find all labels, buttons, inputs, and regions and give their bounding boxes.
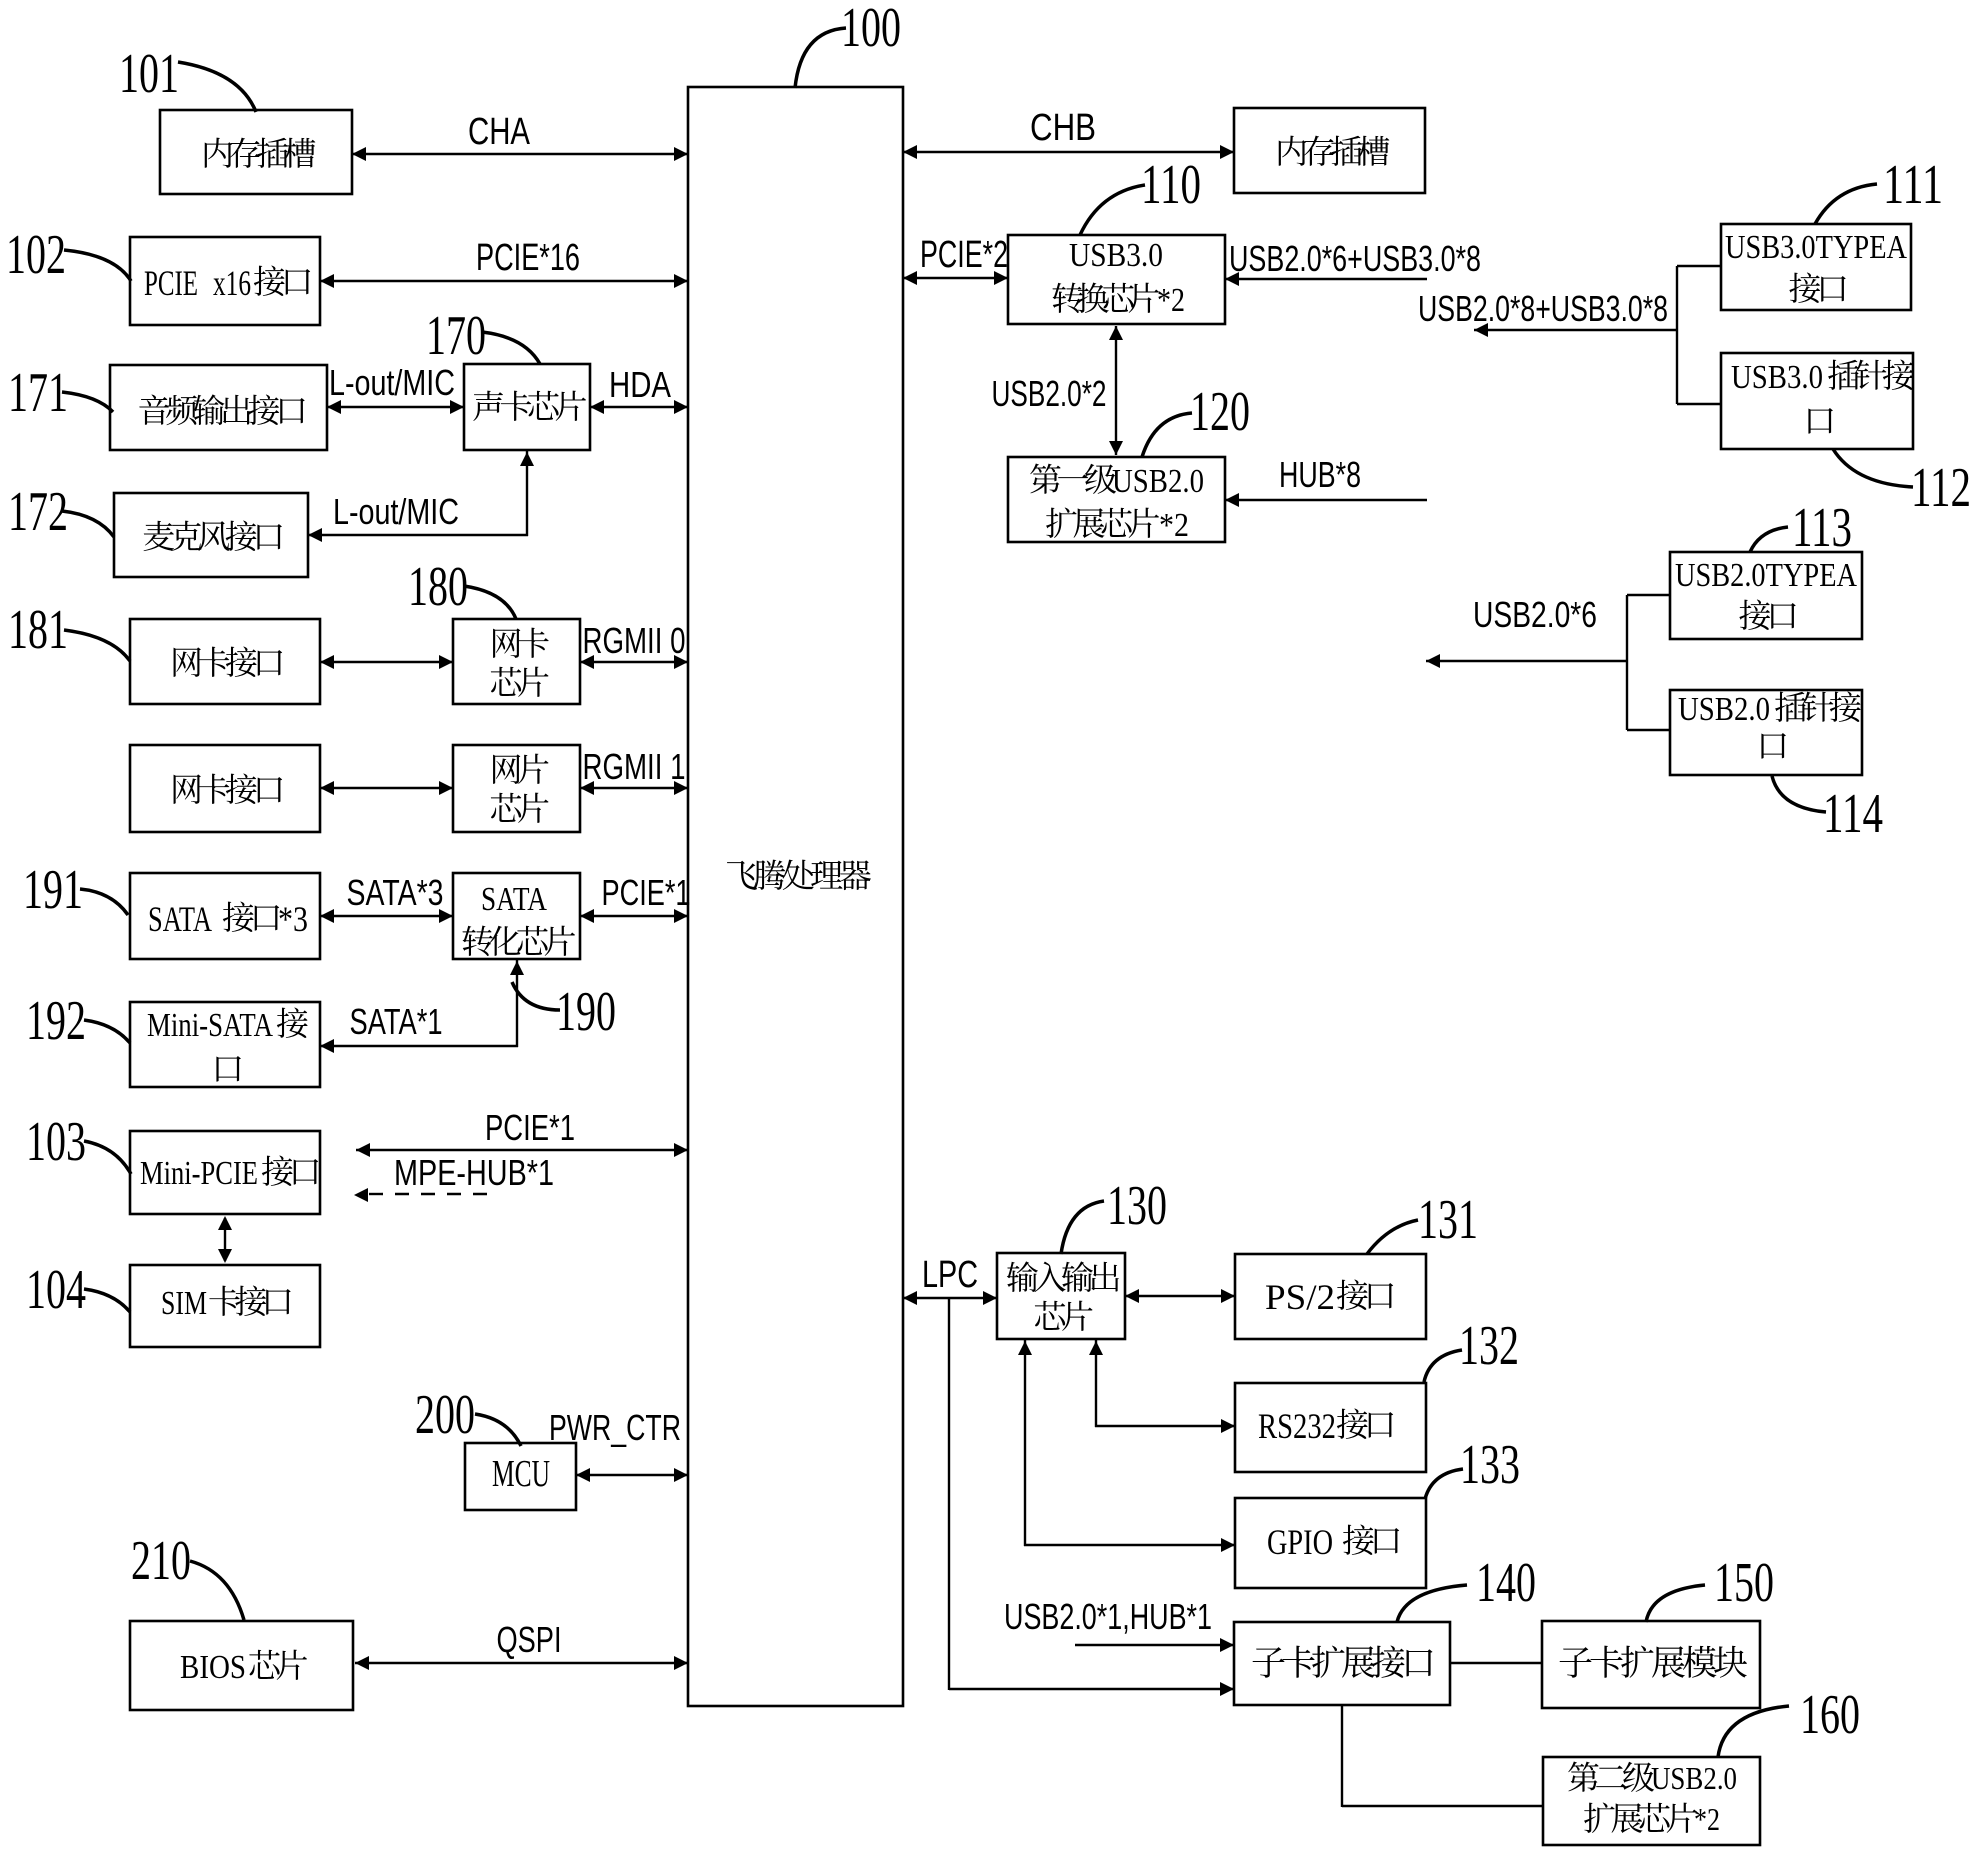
svg-text:QSPI: QSPI — [497, 1619, 562, 1660]
svg-text:150: 150 — [1714, 1552, 1774, 1614]
svg-text:USB2.0: USB2.0 — [1678, 691, 1770, 728]
wire PCIE*1 SATA chip to processor — [580, 909, 688, 923]
ref 210 with leader — [131, 1530, 244, 1620]
box 150 子卡扩展模块 — [1542, 1621, 1760, 1708]
svg-text:USB2.0*6+USB3.0*8: USB2.0*6+USB3.0*8 — [1229, 238, 1481, 279]
label USB2.0*8+USB3.0*8 — [1418, 288, 1668, 329]
svg-text:160: 160 — [1800, 1684, 1860, 1746]
label HUB*8 — [1279, 454, 1361, 495]
svg-text:HDA: HDA — [609, 364, 671, 405]
svg-text:RGMII 0: RGMII 0 — [583, 620, 686, 661]
svg-text:PS/2: PS/2 — [1265, 1277, 1335, 1317]
svg-text:130: 130 — [1107, 1175, 1167, 1237]
label HDA — [609, 364, 671, 405]
svg-text:210: 210 — [131, 1530, 191, 1592]
svg-text:Mini-PCIE: Mini-PCIE — [140, 1155, 258, 1192]
box 181 网卡接口 (upper NIC port) — [130, 619, 320, 704]
label SATA*1 — [350, 1001, 443, 1042]
label MPE-HUB*1 — [394, 1152, 554, 1193]
svg-text:SIM: SIM — [161, 1285, 207, 1322]
wire daughter-card interface to second-level hub — [1342, 1705, 1543, 1807]
wire USB2.0*1,HUB*1 into daughter-card interface — [1075, 1638, 1234, 1652]
svg-text:CHA: CHA — [468, 111, 531, 153]
wire HDA sound chip to processor — [590, 400, 688, 414]
wire CHA memory-slot to processor — [352, 147, 688, 161]
box 170 声卡芯片 — [464, 364, 590, 450]
wire NIC port to NIC chip lower — [320, 781, 453, 795]
wire L-out/MIC to microphone L-shape — [308, 450, 534, 542]
ref 160 with leader — [1718, 1684, 1860, 1757]
svg-text:USB3.0: USB3.0 — [1069, 237, 1163, 274]
svg-text:PCIE*2: PCIE*2 — [920, 234, 1008, 276]
box second 网卡接口 (lower NIC port) — [130, 745, 320, 832]
bracket joining USB3.0 boxes — [1677, 266, 1721, 404]
ref 110 with leader — [1080, 154, 1201, 235]
box 网片芯片 (lower NIC chip) — [453, 745, 580, 832]
svg-text:101: 101 — [119, 43, 179, 105]
box 160 第二级USB2.0 扩展芯片*2 — [1543, 1757, 1760, 1845]
ref 171 with leader — [8, 362, 113, 424]
svg-text:131: 131 — [1418, 1189, 1478, 1251]
svg-text:SATA*1: SATA*1 — [350, 1001, 443, 1042]
box 120 第一级USB2.0 扩展芯片*2 — [1008, 457, 1225, 544]
svg-text:113: 113 — [1792, 497, 1852, 559]
svg-text:102: 102 — [6, 224, 66, 286]
ref 131 with leader — [1367, 1189, 1478, 1254]
bracket joining USB2.0 boxes — [1627, 595, 1670, 730]
box 130 输入输出芯片 — [997, 1253, 1125, 1339]
wire HUB*8 into first-level hub — [1225, 493, 1427, 507]
svg-text:180: 180 — [408, 556, 468, 618]
box 110 USB3.0 转换芯片*2 — [1008, 235, 1225, 324]
ref 172 with leader — [8, 481, 114, 543]
box 112 USB3.0插针接口 — [1721, 353, 1914, 449]
svg-text:103: 103 — [26, 1111, 86, 1173]
wire IO chip to GPIO L-shape — [1018, 1339, 1235, 1552]
svg-text:Mini-SATA: Mini-SATA — [147, 1007, 273, 1044]
box 101 内存插槽 (memory slot left) — [160, 110, 352, 194]
wire NIC port to NIC chip upper — [320, 655, 453, 669]
svg-text:133: 133 — [1460, 1434, 1520, 1496]
svg-text:BIOS: BIOS — [180, 1649, 246, 1686]
svg-text:132: 132 — [1459, 1315, 1519, 1377]
svg-text:110: 110 — [1141, 154, 1201, 216]
ref 170 with leader — [426, 305, 540, 367]
svg-text:112: 112 — [1911, 457, 1969, 519]
svg-text:120: 120 — [1190, 381, 1250, 443]
svg-text:L-out/MIC: L-out/MIC — [333, 491, 459, 532]
label L-out/MIC lower — [333, 491, 459, 532]
wire USB2.0*6+USB3.0*8 into USB3.0 chip — [1225, 272, 1427, 286]
wire PCIE*16 to processor — [320, 274, 688, 288]
label LPC — [922, 1254, 978, 1296]
svg-text:USB2.0*1,HUB*1: USB2.0*1,HUB*1 — [1004, 1596, 1212, 1637]
svg-text:USB3.0: USB3.0 — [1731, 359, 1823, 396]
svg-text:MCU: MCU — [492, 1453, 550, 1495]
ref 150 with leader — [1646, 1552, 1774, 1622]
svg-text:PCIE: PCIE — [144, 263, 198, 303]
wire Mini-PCIE to SIM vertical — [218, 1216, 232, 1263]
wire RGMII1 NIC chip to processor — [580, 781, 688, 795]
svg-text:140: 140 — [1476, 1552, 1536, 1614]
wire IO chip to PS/2 — [1125, 1289, 1235, 1303]
box 200 MCU — [465, 1443, 576, 1510]
svg-text:SATA: SATA — [481, 881, 547, 918]
ref 102 with leader — [6, 224, 131, 286]
box 180 网卡芯片 (upper NIC chip) — [453, 619, 580, 704]
wire QSPI BIOS to processor — [355, 1656, 688, 1670]
svg-text:111: 111 — [1883, 154, 1943, 216]
wire IO chip to RS232 L-shape — [1089, 1339, 1235, 1433]
svg-text:USB2.0*2: USB2.0*2 — [992, 373, 1107, 414]
ref 100 with leader — [795, 0, 901, 88]
label PCIE*1 at SATA chip — [602, 872, 691, 913]
wire SATA*1 SATA chip to Mini-SATA L-shape — [320, 959, 524, 1053]
box 111 USB3.0TYPEA 接口 — [1721, 224, 1911, 310]
ref 200 with leader — [415, 1384, 521, 1446]
wire MPE-HUB*1 dashed arrow — [354, 1188, 499, 1202]
wire L-out/MIC audio-out to sound chip — [327, 400, 464, 414]
ref 112 with leader — [1833, 449, 1969, 519]
label RGMII 0 — [583, 620, 686, 661]
ref 114 with leader — [1772, 776, 1883, 845]
label USB2.0*6 — [1473, 594, 1597, 635]
svg-text:*2: *2 — [1157, 282, 1185, 319]
svg-text:RS232: RS232 — [1258, 1406, 1336, 1446]
svg-text:100: 100 — [841, 0, 901, 59]
svg-text:200: 200 — [415, 1384, 475, 1446]
svg-text:191: 191 — [23, 859, 83, 921]
box 102 PCIE x16接口 — [130, 237, 320, 325]
svg-text:SATA*3: SATA*3 — [347, 872, 444, 913]
box 113 USB2.0TYPEA 接口 — [1670, 552, 1862, 639]
ref 113 with leader — [1750, 497, 1852, 559]
ref 130 with leader — [1061, 1175, 1167, 1254]
label USB2.0*6+USB3.0*8 — [1229, 238, 1481, 279]
ref 190 with leader — [512, 981, 616, 1043]
box 190 SATA 转化芯片 — [453, 873, 580, 959]
svg-text:172: 172 — [8, 481, 68, 543]
wire USB2.0*2 vertical USB3.0 chip to first-level hub — [1109, 326, 1123, 455]
wire LPC processor to IO chip — [903, 1291, 997, 1305]
ref 111 with leader — [1815, 154, 1943, 224]
box 133 GPIO 接口 — [1235, 1498, 1426, 1588]
svg-text:PCIE*16: PCIE*16 — [476, 237, 580, 279]
box 191 SATA 接口*3 — [130, 873, 320, 959]
wire daughter-card interface to module — [1450, 1662, 1542, 1664]
svg-text:*2: *2 — [1159, 507, 1189, 544]
svg-text:190: 190 — [556, 981, 616, 1043]
svg-text:USB3.0TYPEA: USB3.0TYPEA — [1725, 229, 1907, 266]
svg-text:GPIO: GPIO — [1267, 1522, 1333, 1562]
box 132 RS232接口 — [1235, 1383, 1426, 1472]
svg-text:CHB: CHB — [1030, 107, 1096, 149]
svg-text:114: 114 — [1823, 783, 1883, 845]
label CHB — [1030, 107, 1096, 149]
svg-text:181: 181 — [8, 599, 68, 661]
box 171 音频输出接口 — [110, 365, 327, 450]
wire RGMII0 NIC chip to processor — [580, 655, 688, 669]
label RGMII 1 — [583, 746, 686, 787]
ref 181 with leader — [8, 599, 130, 661]
wire PCIE*1 Mini-PCIE to processor — [356, 1143, 688, 1157]
svg-text:L-out/MIC: L-out/MIC — [329, 362, 455, 403]
label USB2.0*1,HUB*1 — [1004, 1596, 1212, 1637]
svg-text:PCIE*1: PCIE*1 — [602, 872, 691, 913]
ref 133 with leader — [1425, 1434, 1520, 1499]
ref 104 with leader — [26, 1259, 130, 1321]
svg-text:SATA: SATA — [148, 899, 212, 939]
wire LPC branch down to daughter-card interface — [949, 1298, 1234, 1696]
wire PWR_CTR MCU to processor — [576, 1468, 688, 1482]
svg-text:192: 192 — [26, 990, 86, 1052]
box 210 BIOS芯片 — [130, 1621, 353, 1710]
label L-out/MIC upper — [329, 362, 455, 403]
svg-text:USB2.0: USB2.0 — [1112, 463, 1204, 500]
ref 120 with leader — [1142, 381, 1250, 457]
svg-text:171: 171 — [8, 362, 68, 424]
box 140 子卡扩展接口 — [1234, 1622, 1450, 1705]
svg-text:*2: *2 — [1694, 1801, 1720, 1837]
ref 191 with leader — [23, 859, 128, 921]
svg-text:USB2.0*6: USB2.0*6 — [1473, 594, 1597, 635]
wire CHB processor to right memory-slot — [903, 145, 1234, 159]
svg-text:MPE-HUB*1: MPE-HUB*1 — [394, 1152, 554, 1193]
box 131 PS/2接口 — [1235, 1254, 1426, 1339]
label PWR_CTR — [549, 1407, 681, 1448]
wire PCIE*2 processor to USB3.0 chip — [903, 271, 1008, 285]
svg-text:PCIE*1: PCIE*1 — [485, 1107, 575, 1148]
svg-text:PWR_CTR: PWR_CTR — [549, 1407, 681, 1448]
label QSPI — [497, 1619, 562, 1660]
svg-text:LPC: LPC — [922, 1254, 978, 1296]
svg-text:USB2.0TYPEA: USB2.0TYPEA — [1675, 557, 1857, 594]
box 114 USB2.0插针接口 — [1670, 690, 1862, 775]
label PCIE*1 at Mini-PCIE — [485, 1107, 575, 1148]
box 192 Mini-SATA接口 — [130, 1002, 320, 1087]
wire SATA*3 ports to SATA chip — [320, 909, 453, 923]
label USB2.0*2 — [992, 373, 1107, 414]
svg-text:*3: *3 — [278, 899, 308, 939]
wire USB2.0*8+USB3.0*8 from bracket — [1474, 323, 1678, 337]
ref 192 with leader — [26, 990, 130, 1052]
ref 101 with leader — [119, 43, 256, 112]
svg-text:USB2.0: USB2.0 — [1651, 1760, 1737, 1796]
ref 140 with leader — [1397, 1552, 1536, 1622]
box 内存插槽 (memory slot right) — [1234, 108, 1425, 193]
svg-text:USB2.0*8+USB3.0*8: USB2.0*8+USB3.0*8 — [1418, 288, 1668, 329]
ref 103 with leader — [26, 1111, 131, 1174]
svg-text:x16: x16 — [213, 263, 251, 303]
box 103 Mini-PCIE接口 — [130, 1131, 320, 1214]
svg-text:HUB*8: HUB*8 — [1279, 454, 1361, 495]
svg-text:RGMII 1: RGMII 1 — [583, 746, 686, 787]
box 104 SIM卡接口 — [130, 1265, 320, 1347]
label PCIE*16 — [476, 237, 580, 279]
label CHA — [468, 111, 531, 153]
ref 180 with leader — [408, 556, 516, 619]
svg-text:104: 104 — [26, 1259, 86, 1321]
svg-text:170: 170 — [426, 305, 486, 367]
label SATA*3 — [347, 872, 444, 913]
wire USB2.0*6 from lower bracket — [1426, 654, 1627, 668]
box 172 麦克风接口 — [114, 493, 308, 577]
processor block 100 飞腾处理器 — [688, 87, 903, 1706]
ref 132 with leader — [1424, 1315, 1519, 1382]
label PCIE*2 — [920, 234, 1008, 276]
